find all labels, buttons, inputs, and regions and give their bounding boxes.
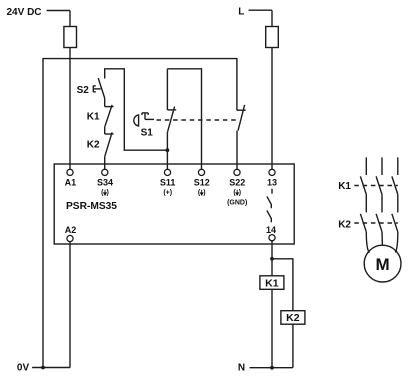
svg-text:A2: A2 <box>65 225 77 235</box>
svg-text:14: 14 <box>266 225 276 235</box>
svg-text:(+): (+) <box>163 190 172 197</box>
svg-text:): ) <box>107 190 109 197</box>
svg-text:K1: K1 <box>265 277 279 289</box>
svg-text:K1: K1 <box>338 181 351 192</box>
svg-text:PSR-MS35: PSR-MS35 <box>66 201 117 212</box>
svg-text:0V: 0V <box>17 363 30 374</box>
svg-text:M: M <box>376 255 390 274</box>
svg-text:A1: A1 <box>65 178 77 188</box>
svg-text:S12: S12 <box>194 178 210 188</box>
svg-text:S2: S2 <box>77 85 90 96</box>
svg-text:S1: S1 <box>141 128 154 139</box>
svg-text:(GND): (GND) <box>227 200 247 207</box>
svg-text:): ) <box>203 190 205 197</box>
svg-text:24V DC: 24V DC <box>7 7 42 18</box>
svg-text:K2: K2 <box>338 219 351 230</box>
svg-text:S34: S34 <box>97 178 113 188</box>
svg-text:K1: K1 <box>87 112 100 123</box>
svg-text:N: N <box>238 363 245 374</box>
svg-text:K2: K2 <box>286 312 300 324</box>
svg-text:S11: S11 <box>160 178 176 188</box>
svg-text:L: L <box>238 7 244 18</box>
svg-text:13: 13 <box>267 178 277 188</box>
svg-text:K2: K2 <box>87 140 100 151</box>
svg-text:): ) <box>239 190 241 197</box>
svg-text:S22: S22 <box>229 178 245 188</box>
